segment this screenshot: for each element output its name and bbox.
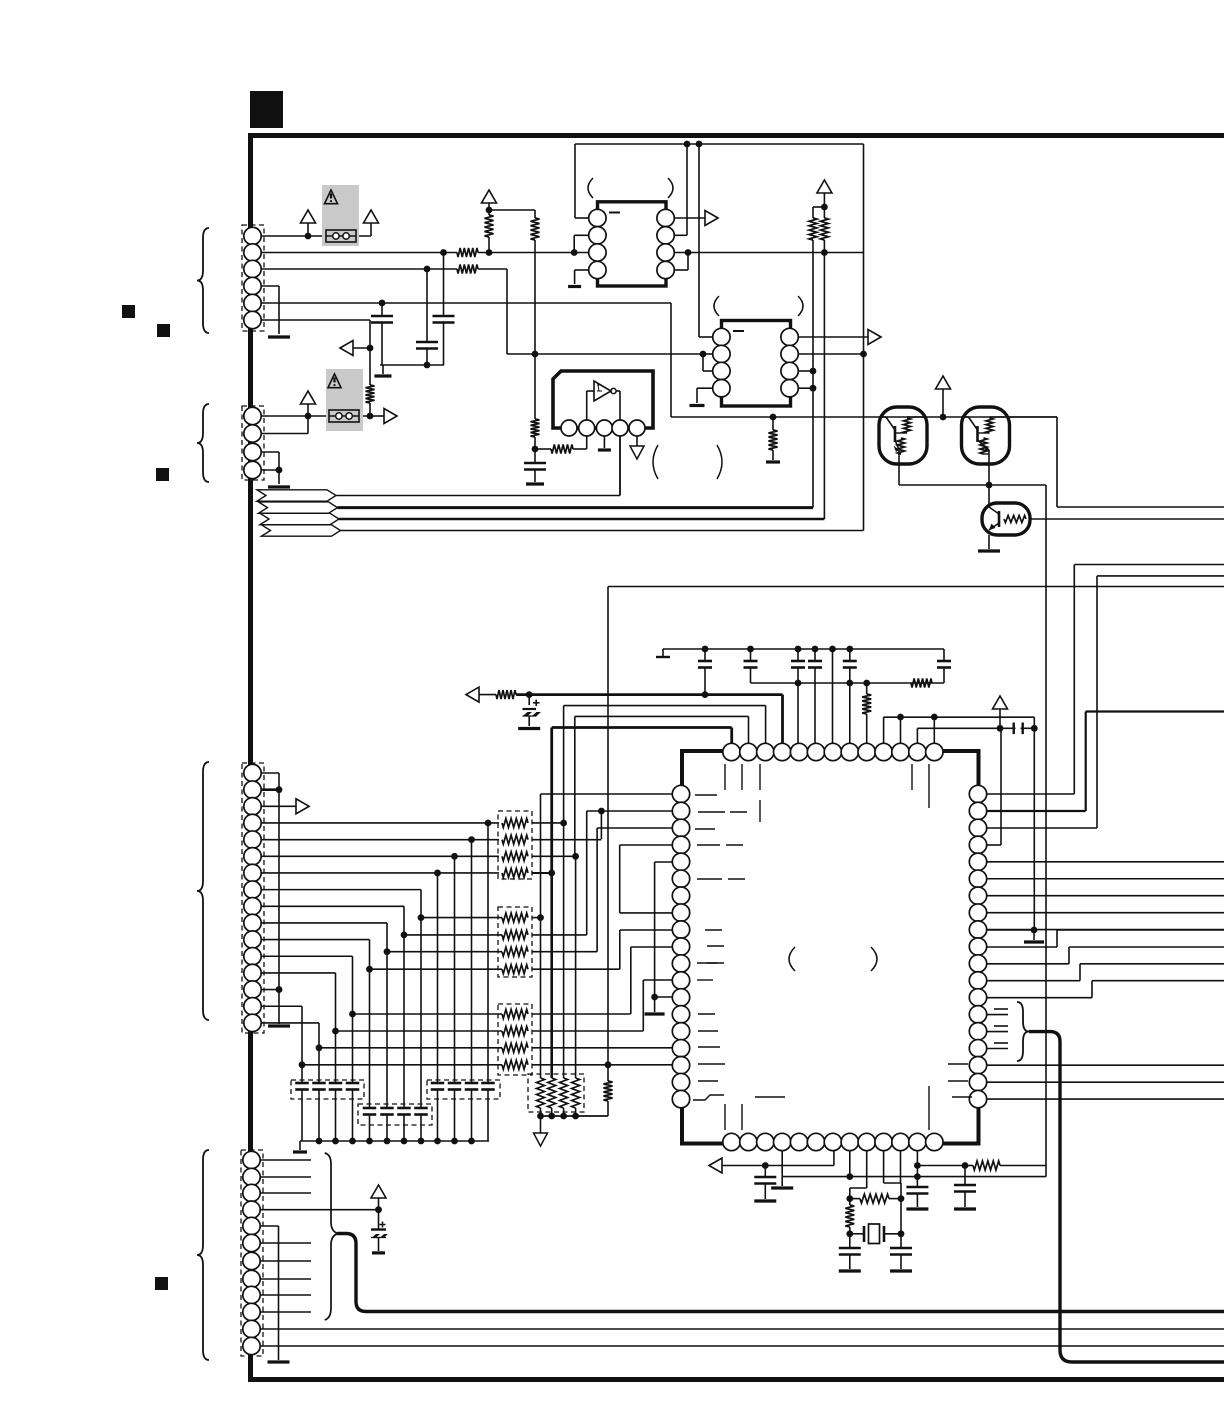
wire IC1 R2 riser (674, 234, 687, 236)
wire CN1 pin2 row (261, 252, 457, 254)
CB2 capacitor 2 (454, 856, 456, 1083)
brace CN2 (197, 404, 209, 482)
wire x671 vertical (670, 303, 672, 417)
IC2 pin L4 (713, 380, 730, 397)
wire row1048 to L16 (532, 1047, 673, 1049)
wire x575 SIL drop (575, 856, 577, 1078)
wire CN3 pin7 row (261, 872, 499, 874)
junction row839 (468, 836, 475, 843)
section bullet 4 (155, 1277, 168, 1290)
IC1 pin R3 (657, 244, 674, 261)
ground G14 (978, 549, 1000, 552)
U1 top pin 12 (909, 743, 926, 760)
twin resistor RA (809, 218, 817, 240)
U1 right pin 6 (969, 870, 986, 887)
wire CN2 pin1 row (261, 415, 329, 417)
junction IC2-R4/x813 (810, 385, 817, 392)
wire R13 jog (987, 997, 1093, 999)
connector CN3 pin 7 (244, 864, 261, 881)
wire row822 end (532, 822, 564, 824)
junction rail cap x471 (468, 1138, 475, 1145)
wire R15x leads (965, 1165, 973, 1167)
U1 right pin 16 (969, 1040, 986, 1057)
connector CN4 pin 12 (243, 1337, 260, 1354)
stub R14 (987, 1014, 1009, 1016)
junction F2 out (367, 413, 374, 420)
power arrow A2 (364, 210, 379, 223)
U3 pin 1 (561, 420, 577, 436)
CB1 capacitor 3 (335, 1031, 337, 1083)
capacitor C10 (849, 649, 851, 661)
wire A3 to R5 (489, 209, 535, 211)
wire R6 to C4 (534, 437, 536, 463)
connector CN3 pin 8 (244, 881, 261, 898)
U1 left pin 14 (672, 1006, 689, 1023)
U1 top pin 5 (790, 743, 807, 760)
wire top rail y144 (575, 143, 864, 145)
IC1 pin L3 (589, 244, 606, 261)
RN4 pin 4 junction (572, 1113, 579, 1120)
wire y417 long (671, 416, 1057, 418)
junction C8 bottom (795, 680, 802, 687)
wire CN4 row 1312 (260, 1311, 311, 1313)
resistor R2 pullup (485, 215, 494, 237)
U3 inverter output wire (616, 390, 620, 392)
U1 left pin 9 (672, 921, 689, 938)
wire x813 vertical (812, 240, 814, 371)
resistor R7 to U3 (551, 445, 573, 454)
border frame bottom edge (248, 1377, 1224, 1382)
wire IC1 R4 tie (674, 269, 688, 271)
wire R10 leads (866, 683, 868, 694)
RN4 pin 1 junction (537, 1113, 544, 1120)
wire CN3 pin8 row (261, 889, 421, 891)
junction rail cap x404 (401, 1138, 408, 1145)
wire U3 pin5 ext (636, 436, 638, 446)
capacitor C2 (416, 341, 438, 344)
U3 pin 3 (596, 420, 612, 436)
paren U3 right (717, 445, 722, 479)
wire CN1 pin5 row (261, 302, 671, 304)
wire CN4 row 1346 long (260, 1345, 1224, 1347)
U1 left pin 7 (672, 887, 689, 904)
wire x279 ground line (278, 790, 280, 1024)
wire x1057 corner (1056, 417, 1058, 507)
wire C3 lower (443, 323, 445, 366)
resistor R6 (531, 419, 540, 437)
RN4 resistor 4 (572, 1078, 580, 1108)
junction rail x798 (795, 646, 802, 653)
junction CN1-1/A1 (305, 233, 312, 240)
wire CN1 pin1 row (261, 235, 371, 237)
wire x507 vertical (506, 269, 508, 354)
wire y365 rail (380, 364, 444, 366)
wire U3 pin2 ext (586, 436, 588, 449)
wire R12 leads (607, 1065, 609, 1081)
wire x535 mid (534, 240, 536, 354)
U1 bottom pin 9 (858, 1133, 875, 1150)
RN2 resistor 2 (404, 934, 502, 936)
wire y729 line (917, 727, 1034, 729)
wire Q3 base out (1030, 518, 1224, 520)
connector CN2 dashed outline (242, 406, 264, 480)
wire x699 drop to IC2 pin1 (698, 144, 700, 337)
gray highlight box F2 (326, 369, 363, 431)
junction rail cap x319 (316, 1138, 323, 1145)
signal ground arrow U3 (630, 446, 644, 459)
capacitor C18 elec (378, 1210, 380, 1230)
U1 left pin 6 (672, 870, 689, 887)
U1 bottom pin 11 (892, 1133, 909, 1150)
stub rail pin10 (883, 717, 885, 744)
wire CN3 pin9 row (261, 905, 404, 907)
wire RA/RB top tie (812, 207, 814, 218)
cap group CB3 box (358, 1104, 432, 1125)
wire row969 end (532, 968, 620, 970)
wire bus left thick (337, 1234, 1224, 1312)
wire x575 drop (574, 144, 576, 218)
wire x619 L4-L8 link (620, 844, 673, 846)
U1 right pin 3 (969, 819, 986, 836)
resistor R14x (845, 1205, 854, 1227)
U1 top pin 10 (875, 743, 892, 760)
wire CN4 row 1243 (260, 1242, 311, 1244)
wire row952 end (532, 951, 597, 953)
U1 left pin 2 (672, 802, 689, 819)
wire CN4 row 1261 (260, 1260, 311, 1262)
gray highlight box F1 (322, 185, 359, 246)
junction x535 on y354 (532, 351, 539, 358)
connector CN3 pin 13 (244, 964, 261, 981)
U1 left pin 19 (672, 1090, 689, 1107)
CB2 capacitor 1 (437, 873, 439, 1083)
RN3 resistor 3 (319, 1047, 502, 1049)
wire x643 L12 link (643, 979, 672, 981)
junction rail/b8 (846, 1173, 853, 1180)
wire Q1 emitter (898, 464, 900, 485)
page index black square (250, 91, 283, 128)
wire CN1 pin4 stub (261, 285, 279, 287)
wire CN3 pin1 (261, 772, 279, 774)
IC2 pin L3 (713, 362, 730, 379)
wire b10 jog (883, 1150, 885, 1183)
capacitor C14 (849, 1234, 851, 1248)
junction A3 (486, 207, 493, 214)
wire emitter to x1046 (989, 484, 1046, 486)
wire x586 L2 link (587, 810, 673, 812)
U1 top pin 8 (841, 743, 858, 760)
capacitor C3 (433, 315, 455, 318)
U1 right pin 19 (969, 1090, 986, 1107)
wire vdd pin drop (832, 649, 834, 744)
wire Rrow long 5 (987, 861, 1224, 863)
wire CN2 pin4 stub (261, 469, 279, 471)
wire IC2 R4 row (798, 387, 813, 389)
connector CN2 pin 4 (244, 461, 261, 478)
IC1 pin R1 (657, 209, 674, 226)
ground G5 (598, 448, 611, 451)
resistor array RN2 box (498, 907, 532, 977)
junction rail cap x369 (366, 1138, 373, 1145)
junction C3 top (440, 249, 447, 256)
U1 right pin 4 (969, 836, 986, 853)
wire x619 L9 link (620, 929, 673, 931)
U1 bottom pin 8 (841, 1133, 858, 1150)
wire CN3 pin14 (261, 989, 279, 991)
resistor R1 series (457, 248, 478, 257)
wire C18 stem (378, 1238, 380, 1252)
IC1 pin L4 (589, 261, 606, 278)
junction x370/arrow (367, 345, 374, 352)
connector CN4 pin 11 (243, 1320, 260, 1337)
wire x1033 drop (1033, 728, 1035, 930)
ground G11 (268, 1024, 290, 1027)
power arrow A8 (371, 1185, 386, 1198)
U1 top pin 3 (757, 743, 774, 760)
U3 pin 5 (629, 420, 645, 436)
connector CN1 pin 4 (244, 277, 261, 294)
junction Q1/Q2 supply (940, 414, 947, 421)
capacitor C17 (964, 1166, 966, 1186)
wire C1 vertical (381, 303, 383, 316)
U1 bottom pin 5 (790, 1133, 807, 1150)
connector CN4 dashed outline (241, 1150, 263, 1356)
junction rail cap x387 (384, 1138, 391, 1145)
connector CN3 pin 5 (244, 831, 261, 848)
connector CN3 pin 1 (244, 764, 261, 781)
SIL pack RN4 box (528, 1074, 584, 1112)
resistor R13x (860, 1194, 889, 1203)
wire CN4 row 1329 long (260, 1328, 1224, 1330)
wire bus1 riser (619, 437, 621, 496)
wire CN3 pin11 row (261, 939, 370, 941)
junction emitters (986, 482, 993, 489)
resistor R12 (604, 1081, 613, 1101)
wire y694 thick (516, 693, 783, 696)
connector CN1 pin 6 (244, 311, 261, 328)
wire CN4 row 1279 (260, 1278, 311, 1280)
junction R2 bottom (486, 249, 493, 256)
paren U1 left (789, 947, 795, 971)
wire IC2 out1 (798, 336, 868, 338)
connector CN3 pin 12 (244, 948, 261, 965)
wire C5 stem (528, 716, 530, 727)
U1 bottom pin 1 (723, 1133, 740, 1150)
U1 left pin 17 (672, 1057, 689, 1074)
wire IC2 pin3 tie stub (702, 354, 704, 371)
U1 inner pin ticks (724, 764, 726, 790)
connector CN4 pin 6 (243, 1234, 260, 1251)
stub rail pin11 (900, 717, 902, 744)
fuse F1 (326, 230, 356, 242)
wire C4 to ground (534, 470, 536, 483)
junction b12/rail end (914, 1173, 921, 1180)
junction rail/x699 (696, 141, 703, 148)
wire x597 L3 link (597, 827, 673, 829)
wire row918 end (532, 917, 541, 919)
junction rail x849 (846, 646, 853, 653)
wire C10 drop (849, 683, 851, 744)
RN2 resistor 3 (387, 951, 502, 953)
wire b4 drop (781, 1150, 783, 1177)
connector CN4 pin 9 (243, 1286, 260, 1303)
wire row856 end (532, 855, 576, 857)
RN1 resistor 2 (502, 835, 528, 844)
wire L13 stub (655, 996, 673, 998)
ground G16 (754, 1199, 776, 1202)
U1 right pin 11 (969, 955, 986, 972)
power arrow A6 (993, 696, 1008, 709)
section bullet 3 (156, 468, 169, 481)
wire R12 jog (987, 980, 1081, 982)
crystal X1 (850, 1233, 864, 1235)
wire R14x leads (849, 1199, 851, 1205)
stub R15 (987, 1031, 1009, 1033)
junction row1065/x608 (605, 1061, 612, 1068)
wire U3 pin4 ext (619, 436, 621, 496)
U1 bottom pin 7 (824, 1133, 841, 1150)
ground G12 (654, 997, 656, 1012)
wire row1014 end (532, 1013, 631, 1015)
IC2 pin R2 (781, 345, 798, 362)
U1 bottom pin 6 (807, 1133, 824, 1150)
U1 right pin 2 (969, 802, 986, 819)
CB3 capacitor 4 (420, 918, 422, 1108)
junction rail x832 (829, 646, 836, 653)
CB1 capacitor 4 (352, 1014, 354, 1083)
connector CN3 pin 15 (244, 998, 261, 1015)
wire CN3 pin10 row (261, 922, 387, 924)
transistor Q2 (962, 407, 1010, 464)
capacitor C4 (524, 462, 546, 465)
wire row839 end (532, 839, 601, 841)
wire CN2 pin2 tie (261, 433, 308, 435)
connector CN3 pin 4 (244, 814, 261, 831)
cap group CB1 box (291, 1080, 364, 1099)
bus collect bracket CN4 (325, 1153, 338, 1320)
wire CN3 pin12 (261, 955, 353, 957)
ground G10 (662, 649, 664, 657)
junction y694/C5 (526, 691, 533, 698)
U1 left pin 10 (672, 938, 689, 955)
paren U3 left (653, 445, 658, 479)
wire CN1 pin3 row (261, 268, 427, 270)
bus entry arrow 1 (257, 490, 336, 501)
RN4 resistor 2 (548, 1078, 556, 1108)
brace CN3 (197, 762, 209, 1020)
wire x551 SIL drop thick (550, 872, 553, 1078)
connector CN4 pin 10 (243, 1303, 260, 1320)
junction RB top (821, 204, 828, 211)
U1 right pin 8 (969, 904, 986, 921)
CB1 capacitor 2 (318, 1048, 320, 1083)
wire y705 fan (564, 705, 766, 707)
resistor R3 series (457, 265, 478, 274)
RN4 resistor 3 (560, 1078, 568, 1108)
connector CN1 pin 2 (244, 244, 261, 261)
junction rail x705 (702, 646, 709, 653)
CB3 capacitor 2 (386, 952, 388, 1108)
wire R4 row (987, 844, 1002, 846)
junction xtal right top (898, 1195, 905, 1202)
connector CN3 pin 9 (244, 898, 261, 915)
arrow net left y694 (466, 687, 479, 702)
junction IC2-R2/x863 (860, 351, 867, 358)
IC2 body (722, 321, 791, 407)
junction xtal left top (846, 1195, 853, 1202)
U1 top pin 13 (926, 743, 943, 760)
ground G13 stem (299, 1141, 301, 1150)
wire xtal res leads (850, 1198, 860, 1200)
CB3 capacitor 3 (403, 935, 405, 1108)
bus wire 4 (341, 530, 864, 532)
bus wire 3 thick (339, 518, 824, 521)
CB1 capacitor 1 (301, 1065, 303, 1083)
wire CN4 row 1160 (260, 1159, 311, 1161)
wire x563 SIL drop (563, 822, 565, 1078)
wire R4 to fuse row (369, 403, 371, 416)
IC2 pin L1 (713, 328, 730, 345)
paren IC1 left (588, 178, 593, 198)
IC2 pin R3 (781, 362, 798, 379)
junction C17 top (962, 1162, 969, 1169)
resistor R5 pullup (531, 218, 540, 240)
ground G18 (839, 1269, 861, 1272)
junction rail cap x352 (349, 1138, 356, 1145)
wire y586 trunk (608, 586, 1224, 588)
wire b7 drop (833, 1150, 835, 1166)
wire CN4 pin4 row (260, 1209, 379, 1211)
paren U1 right (871, 947, 877, 971)
U1 top pin 7 (824, 743, 841, 760)
capacitor C13 (764, 1166, 766, 1178)
capacitor C6 (704, 649, 706, 661)
wire y716 fan (575, 715, 749, 717)
ground G9 (518, 727, 540, 730)
U1 left pin 11 (672, 955, 689, 972)
transistor Q1 (879, 407, 927, 464)
warning triangle F1 (325, 190, 338, 204)
arrow net stub left (340, 341, 353, 356)
connector CN3 pin 2 (244, 781, 261, 798)
fuse F2 (329, 410, 359, 422)
wire x540 L1 link (541, 793, 673, 795)
resistor R9 (496, 690, 516, 699)
wire C2 lower (426, 349, 428, 366)
wire CN2 pin3 stub (261, 451, 279, 453)
connector CN3 pin 16 (244, 1014, 261, 1031)
paren IC2 right (798, 296, 803, 316)
junction b12/y1166 (914, 1162, 921, 1169)
ground G2 (375, 374, 392, 377)
wire CN4 row 1295 (260, 1294, 311, 1296)
junction x654/L13 (651, 994, 658, 1001)
junction CN2-1 (305, 413, 312, 420)
wire SIL gnd stem (540, 1116, 542, 1133)
wire y727 fan thick (552, 726, 732, 729)
power arrow A4 (301, 391, 316, 404)
wire y1116 link (540, 1115, 608, 1117)
connector CN3 pin 6 (244, 848, 261, 865)
wire Q3 emitter (988, 535, 990, 549)
wire CN1 pin6 row (261, 319, 370, 321)
arrow net left bottom (709, 1158, 722, 1173)
arrow IC1 out1 (705, 211, 718, 226)
connector CN3 dashed outline (242, 763, 264, 1033)
transistor Q3 (982, 503, 1030, 535)
U1 left pin 15 (672, 1023, 689, 1040)
wire R3 row (987, 827, 1098, 829)
